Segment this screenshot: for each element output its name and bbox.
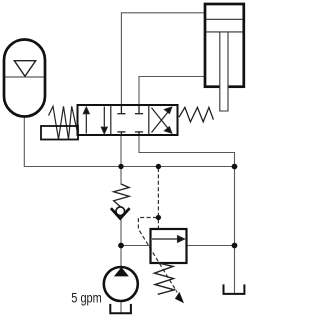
value label: 5 gpm [71, 289, 102, 305]
junction dot: pilot line node [156, 215, 161, 220]
wire: counterbalance valve outlet to tank drop line [187, 245, 235, 247]
check valve ball [116, 207, 125, 216]
directional valve body (3-position envelope) [78, 105, 178, 135]
junction dot: bus / pressure line [118, 164, 123, 169]
wire: valve port B up to cylinder rod end [139, 77, 205, 106]
cylinder rod (double line through bottom cap) [220, 33, 228, 112]
tank symbol bottom right [224, 284, 245, 294]
wire: pump to tank below [120, 301, 122, 313]
junction dot: bus / pilot line [156, 164, 161, 169]
valve left return spring (zigzag over solenoid box) [49, 106, 78, 139]
valve envelope dividers [111, 105, 149, 135]
accumulator gas triangle [14, 61, 35, 77]
pilot line (dashed) from bus down to counterbalance valve top [157, 168, 159, 229]
cylinder piston (two lines) [206, 19, 243, 32]
counterbalance valve spring [154, 263, 174, 294]
junction dot: bus / tank drop [232, 164, 238, 170]
valve left envelope: straight-through arrows [83, 107, 107, 134]
counterbalance valve body [151, 229, 187, 263]
tank symbol under pump [110, 304, 131, 313]
wire: accumulator drop and horizontal bus [24, 116, 234, 167]
cylinder barrel [205, 4, 244, 87]
counterbalance valve flow arrow [152, 236, 184, 242]
accumulator gas/fluid separator line [5, 76, 45, 78]
valve right return spring [179, 107, 213, 122]
wire: valve tank port down, right and down to right tank [139, 135, 235, 293]
wire: valve port A up to cylinder cap end [121, 13, 204, 105]
valve right envelope: crossed arrows [152, 107, 172, 133]
check valve spring [114, 184, 130, 207]
wire: check valve to pump [120, 218, 122, 268]
accumulator shell [4, 40, 45, 117]
junction dot: pump outlet branch [118, 243, 124, 249]
svg-text:5 gpm: 5 gpm [71, 289, 102, 305]
valve centre envelope: blocked ports (T symbols) [117, 106, 143, 134]
check valve seat [111, 208, 130, 218]
wire: pump branch right to counterbalance valve inlet [121, 245, 150, 247]
junction dot: counterbalance outlet / tank drop [232, 243, 238, 249]
pilot line (dashed) branch left and diagonal through spring [138, 218, 177, 293]
pump outlet triangle (filled, pointing up) [114, 267, 129, 276]
valve solenoid box (left actuator) [41, 126, 78, 140]
wire: valve pressure port down to check valve [120, 135, 122, 185]
arrowhead of dashed adjustment arrow [175, 292, 184, 303]
pump circle [104, 267, 138, 301]
